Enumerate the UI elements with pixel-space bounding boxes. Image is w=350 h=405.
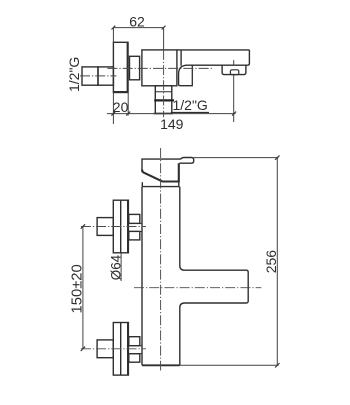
svg-text:Ø64: Ø64 [109, 254, 124, 280]
svg-text:1/2"G: 1/2"G [66, 57, 82, 92]
svg-text:149: 149 [160, 116, 184, 132]
svg-text:20: 20 [113, 99, 129, 115]
svg-text:256: 256 [263, 250, 279, 274]
svg-text:62: 62 [129, 13, 145, 29]
svg-text:1/2"G: 1/2"G [173, 97, 208, 113]
svg-text:150±20: 150±20 [70, 264, 86, 313]
